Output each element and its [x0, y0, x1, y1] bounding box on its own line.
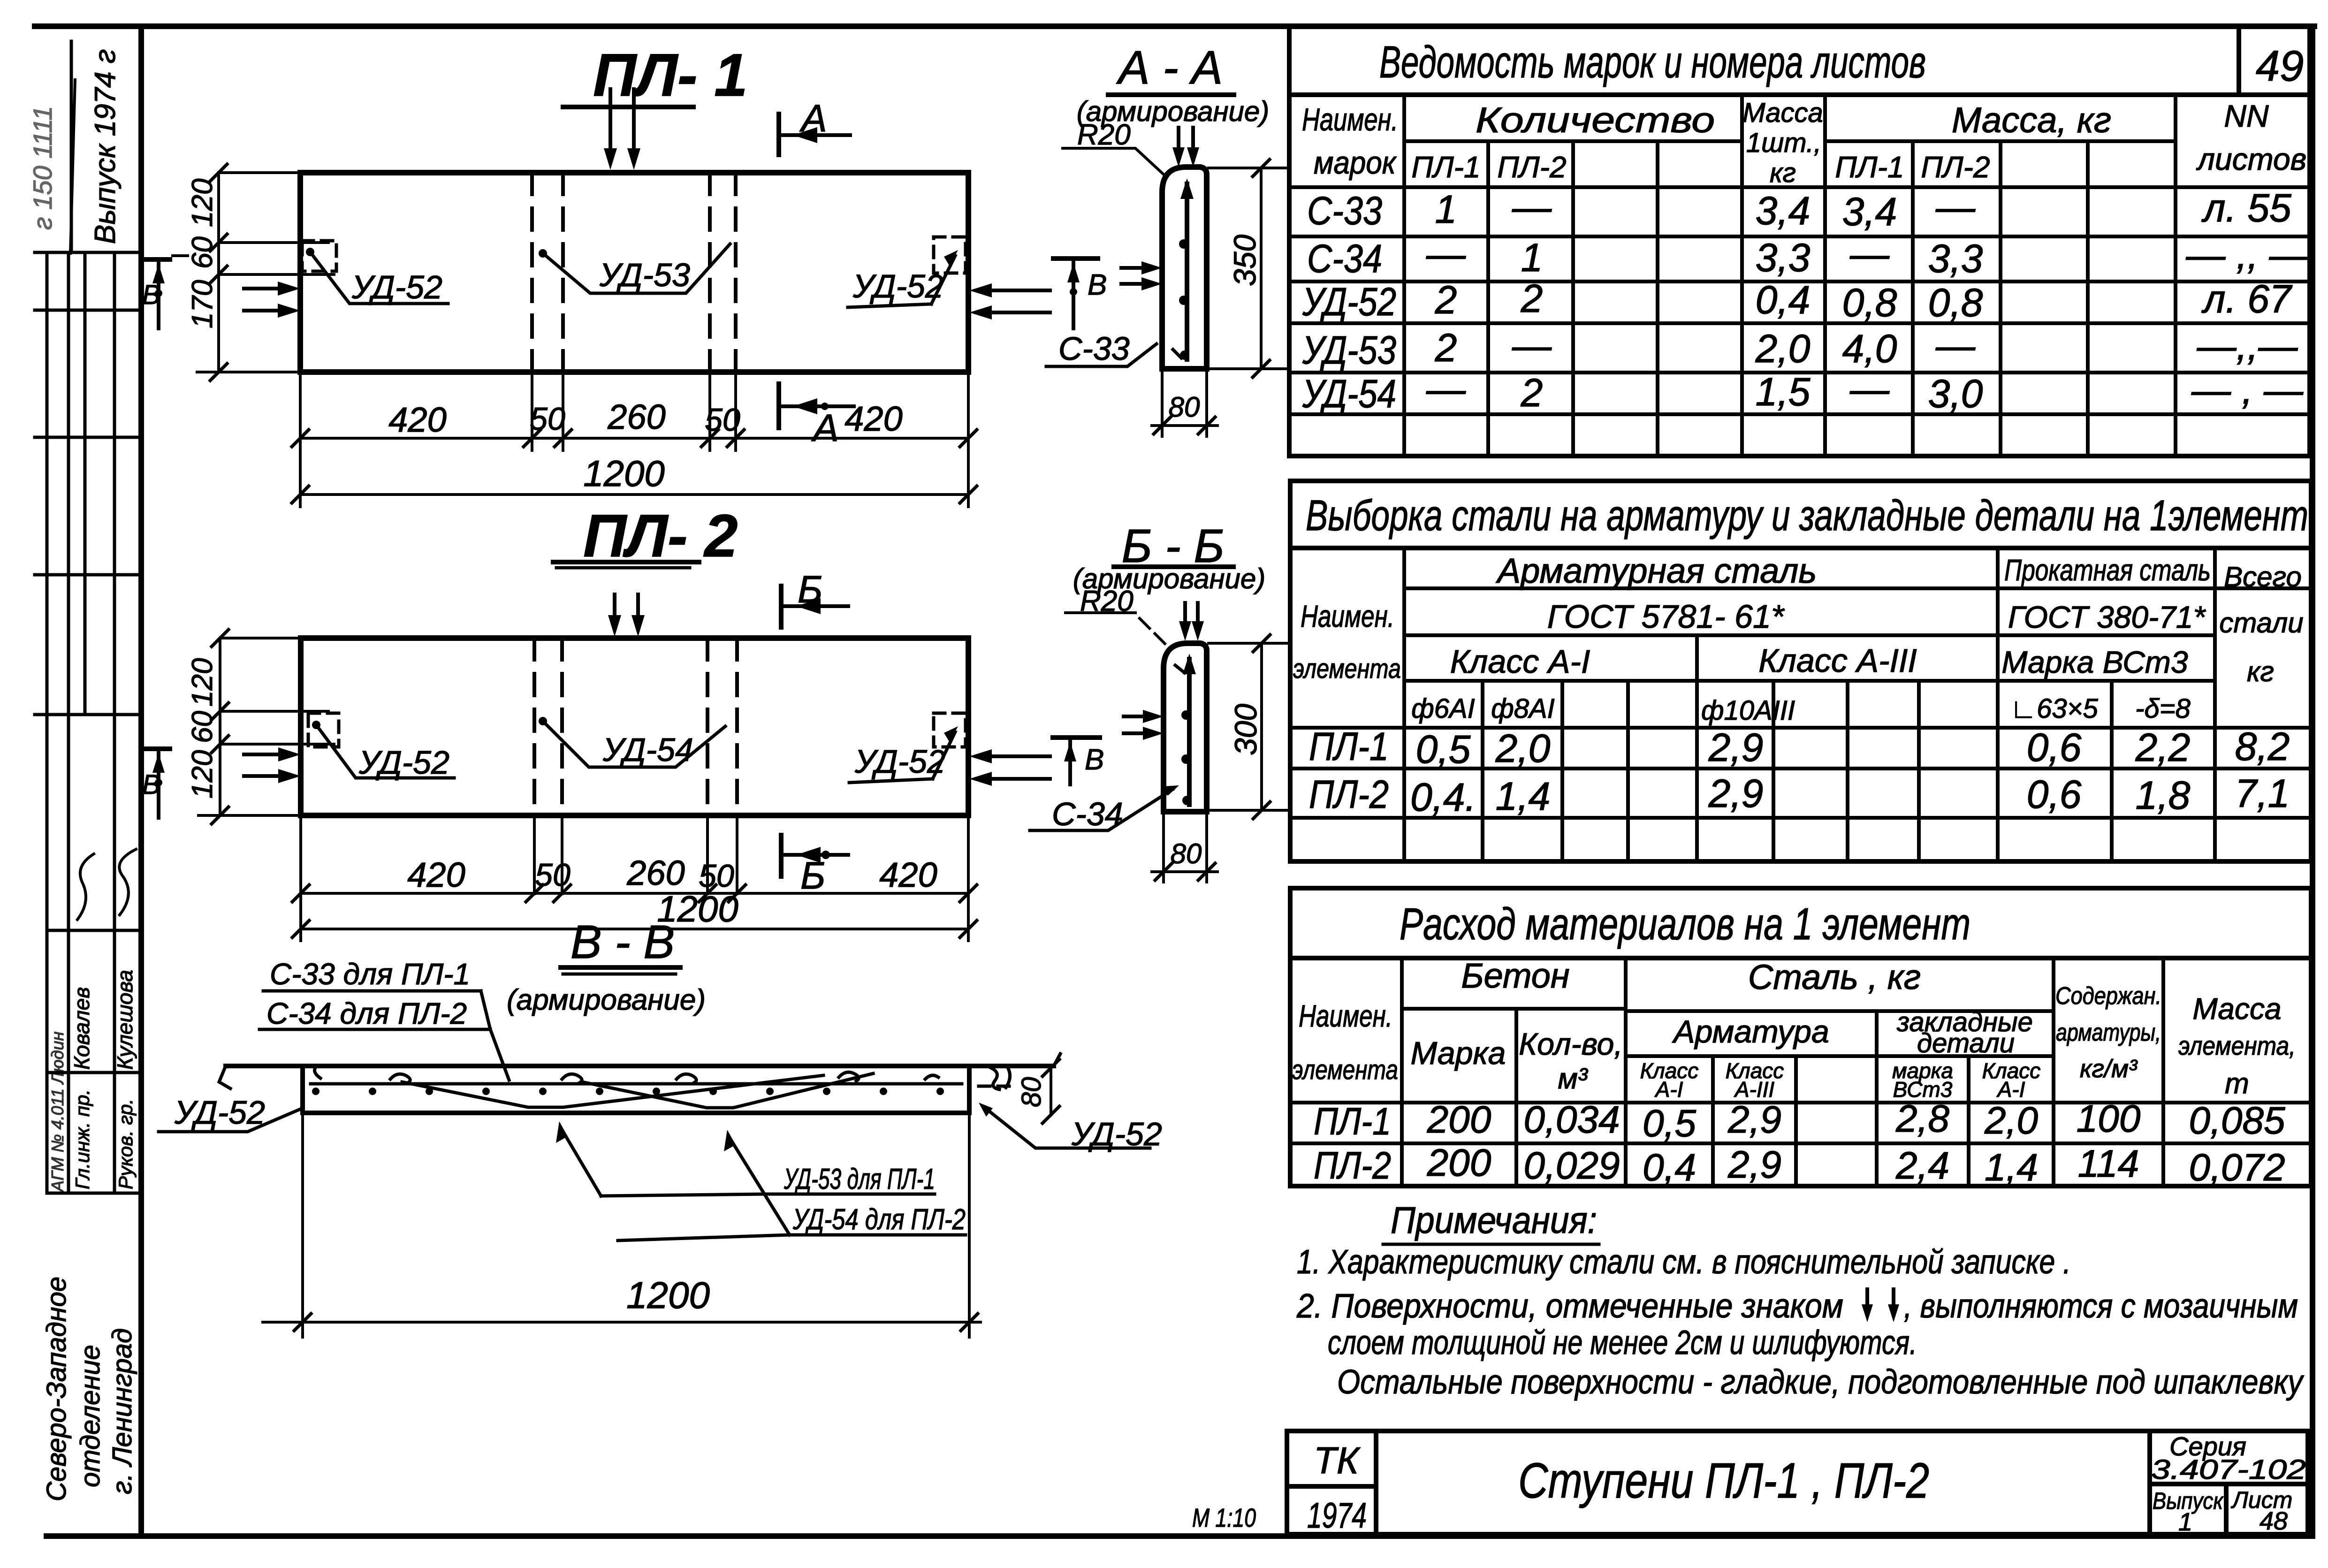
sidebar stamp grid — [35, 41, 141, 1193]
V-V mosaic mark right — [991, 1066, 1010, 1089]
svg-text:кг: кг — [2247, 656, 2274, 687]
svg-text:200: 200 — [1427, 1142, 1491, 1184]
section mark B(Б) top — [781, 568, 848, 627]
svg-text:1200: 1200 — [583, 453, 665, 494]
svg-text:марок: марок — [1314, 145, 1397, 181]
svg-text:1. Характеристику стали см.: 1. Характеристику стали см. в пояснитель… — [1297, 1243, 2071, 1281]
svg-text:ГОСТ 5781- 61*: ГОСТ 5781- 61* — [1547, 598, 1785, 635]
svg-text:Остальные поверхности - глад: Остальные поверхности - гладкие, подгото… — [1337, 1363, 2305, 1401]
svg-text:Б: Б — [800, 854, 825, 897]
svg-text:80: 80 — [1016, 1077, 1047, 1107]
svg-text:А-I: А-I — [1654, 1077, 1683, 1102]
PL-1 side arrows right — [969, 283, 1050, 320]
svg-text:УД-53: УД-53 — [599, 257, 690, 293]
svg-text:80: 80 — [1171, 838, 1202, 869]
svg-text:С-33: С-33 — [1058, 330, 1130, 367]
svg-text:3.407-102: 3.407-102 — [2151, 1454, 2306, 1485]
svg-text:200: 200 — [1427, 1098, 1491, 1141]
svg-text:УД-53 для ПЛ-1: УД-53 для ПЛ-1 — [784, 1163, 935, 1195]
svg-text:арматуры,: арматуры, — [2056, 1019, 2161, 1046]
svg-text:ПЛ-2: ПЛ-2 — [1314, 1144, 1391, 1187]
svg-text:кг/м³: кг/м³ — [2080, 1055, 2138, 1083]
svg-text:А: А — [811, 407, 839, 449]
svg-text:0,072: 0,072 — [2189, 1146, 2285, 1189]
B-B rebar C-34 — [1175, 654, 1196, 805]
svg-text:2,0: 2,0 — [1984, 1099, 2038, 1142]
svg-text:ПЛ-1: ПЛ-1 — [1309, 724, 1389, 769]
svg-text:1,4: 1,4 — [1985, 1146, 2038, 1189]
svg-text:л. 67: л. 67 — [2201, 277, 2293, 321]
table 1 headers — [1302, 98, 2306, 188]
svg-text:УД-52: УД-52 — [852, 268, 943, 304]
svg-text:В: В — [142, 769, 160, 800]
svg-text:60: 60 — [186, 711, 219, 743]
sidebar org name rotated — [41, 1277, 137, 1501]
svg-text:УД-52: УД-52 — [351, 269, 442, 305]
svg-text:ПЛ-1: ПЛ-1 — [1411, 150, 1480, 184]
svg-text:М 1:10: М 1:10 — [1192, 1503, 1256, 1532]
A-A label C-33 — [1046, 330, 1156, 367]
PL-1 overall dimension 1200 — [292, 453, 977, 507]
svg-text:2,8: 2,8 — [1895, 1097, 1949, 1140]
svg-text:1,5: 1,5 — [1756, 370, 1811, 414]
svg-text:В - В: В - В — [571, 916, 675, 968]
svg-text:-δ=8: -δ=8 — [2135, 693, 2191, 724]
svg-text:ПЛ-2: ПЛ-2 — [1309, 772, 1389, 816]
svg-text:УД-52: УД-52 — [358, 744, 449, 781]
embedded part UD-52 left (PL-2) — [308, 713, 454, 781]
svg-text:R20: R20 — [1077, 119, 1131, 151]
svg-text:1,4: 1,4 — [1496, 774, 1551, 818]
svg-text:УД-54: УД-54 — [1302, 372, 1396, 416]
PL-1 title — [563, 42, 747, 109]
svg-text:0,6: 0,6 — [2027, 725, 2082, 769]
svg-text:ф6АI: ф6АI — [1411, 693, 1475, 724]
embedded part UD-52 left (PL-1) — [302, 241, 448, 305]
PL-2 title — [553, 502, 738, 570]
svg-text:УД-54: УД-54 — [602, 731, 693, 768]
svg-text:ГОСТ 380-71*: ГОСТ 380-71* — [2008, 600, 2206, 634]
svg-text:2,4: 2,4 — [1895, 1144, 1949, 1187]
svg-text:2,9: 2,9 — [1708, 771, 1764, 815]
svg-text:—: — — [1426, 367, 1466, 411]
PL-2 side arrows left — [244, 747, 301, 783]
svg-text:ф8АI: ф8АI — [1491, 693, 1555, 724]
svg-text:420: 420 — [879, 855, 937, 894]
svg-text:Северо-Западное: Северо-Западное — [41, 1277, 72, 1501]
V-V mesh C-33/34 top chord — [311, 1084, 962, 1095]
label C-33 for PL-1 — [263, 957, 481, 991]
embedded part UD-54 middle (PL-2) — [539, 717, 725, 768]
svg-text:— ,, —: — ,, — — [2185, 233, 2309, 277]
svg-text:2: 2 — [1435, 326, 1457, 370]
svg-text:г. Ленинград: г. Ленинград — [107, 1328, 137, 1494]
svg-text:49: 49 — [2256, 42, 2304, 90]
svg-text:3,0: 3,0 — [1928, 372, 1983, 416]
A-A rebar C-33 — [1173, 178, 1194, 360]
PL-2 left dimension chain 120/60/120 — [186, 630, 334, 824]
svg-text:, выполняются с мозаичным: , выполняются с мозаичным — [1904, 1287, 2298, 1325]
table 2 title — [1306, 492, 2308, 540]
svg-text:Бетон: Бетон — [1461, 956, 1569, 995]
svg-text:Выпуск 1974 г: Выпуск 1974 г — [89, 49, 122, 244]
V-V bar top surface line — [219, 1054, 1060, 1088]
svg-text:ПЛ- 2: ПЛ- 2 — [583, 502, 738, 570]
svg-text:2,9: 2,9 — [1708, 725, 1764, 769]
svg-text:Гл.инж. пр.: Гл.инж. пр. — [71, 1089, 93, 1189]
svg-text:Масса, кг: Масса, кг — [1952, 100, 2111, 140]
svg-text:Масса: Масса — [1742, 98, 1823, 128]
section mark A bottom — [779, 384, 854, 449]
V-V bent bar 1 (UD-53/54) — [402, 1075, 823, 1107]
A-A radius label R20 — [1063, 119, 1167, 177]
svg-text:УД-52: УД-52 — [1302, 280, 1396, 324]
svg-text:Ведомость марок и номера л: Ведомость марок и номера листов — [1379, 37, 1926, 87]
svg-text:0,029: 0,029 — [1523, 1144, 1620, 1187]
A-A load arrows — [1172, 128, 1199, 167]
svg-text:Расход материалов на 1 эле: Расход материалов на 1 элемент — [1400, 899, 1970, 949]
svg-text:А: А — [799, 97, 827, 140]
svg-text:1974: 1974 — [1307, 1496, 1367, 1536]
svg-text:л. 55: л. 55 — [2201, 186, 2291, 230]
B-B dimension 80 — [1152, 815, 1217, 882]
svg-text:0,6: 0,6 — [2027, 772, 2082, 816]
svg-text:Наимен.: Наимен. — [1299, 998, 1392, 1033]
section mark A top — [779, 97, 850, 155]
svg-text:120: 120 — [186, 750, 219, 799]
svg-text:элемента,: элемента, — [2178, 1031, 2296, 1060]
svg-text:В: В — [1085, 744, 1104, 776]
svg-text:А - А: А - А — [1116, 41, 1223, 94]
svg-text:детали: детали — [1917, 1028, 2015, 1058]
A-A dimension 80 — [1152, 372, 1217, 436]
PL-2 plate outline — [301, 638, 968, 815]
svg-text:1: 1 — [2178, 1508, 2192, 1536]
svg-text:170: 170 — [186, 280, 219, 328]
V-V labels UD-53/UD-54 — [556, 1121, 935, 1196]
table 1 data rows — [1302, 185, 2309, 416]
svg-text:260: 260 — [607, 397, 665, 436]
mark V (B) far left for PL-2 — [142, 749, 170, 818]
PL-1 dimension row 420/50/260/50/420 — [292, 375, 977, 450]
B-B title — [1073, 520, 1265, 594]
PL-1 plate outline — [300, 173, 968, 372]
svg-text:—: — — [1426, 232, 1466, 276]
V-V label UD-52 left — [159, 1094, 300, 1132]
svg-text:7,1: 7,1 — [2235, 771, 2290, 815]
V-V mesh hooks — [315, 1066, 939, 1083]
svg-text:0,8: 0,8 — [1928, 281, 1983, 325]
svg-text:Масса: Масса — [2192, 992, 2281, 1026]
A-A title — [1077, 41, 1269, 127]
svg-text:2,0: 2,0 — [1755, 327, 1811, 371]
svg-text:АГМ № 4.011 Людин: АГМ № 4.011 Людин — [48, 1031, 67, 1193]
svg-text:—: — — [1512, 323, 1552, 367]
svg-text:120: 120 — [186, 658, 219, 707]
mark V (B) far left for PL-1 — [142, 256, 188, 328]
PL-1 dashed joint lines — [532, 173, 736, 372]
svg-text:элемента: элемента — [1292, 1055, 1398, 1085]
svg-text:1,8: 1,8 — [2136, 773, 2191, 817]
svg-text:350: 350 — [1227, 235, 1262, 286]
svg-text:ТК: ТК — [1314, 1439, 1361, 1481]
svg-text:0,5: 0,5 — [1643, 1102, 1696, 1145]
svg-text:2. Поверхности, отмеченные: 2. Поверхности, отмеченные знаком — [1296, 1287, 1843, 1325]
V-V label UD-52 right — [979, 1103, 1162, 1152]
svg-text:Выборка стали на арматуру: Выборка стали на арматуру и закладные де… — [1306, 492, 2308, 540]
table 2 headers — [1293, 551, 2304, 726]
svg-text:2: 2 — [1435, 278, 1457, 322]
svg-text:2: 2 — [1521, 276, 1543, 320]
V-V title — [507, 916, 706, 1016]
embedded part UD-53 middle (PL-1) — [539, 244, 730, 293]
svg-text:80: 80 — [1169, 391, 1200, 423]
embedded part UD-52 right (PL-1) — [848, 237, 966, 307]
PL-1 side arrows left — [244, 282, 300, 318]
svg-text:листов: листов — [2196, 142, 2306, 176]
svg-text:м³: м³ — [1558, 1063, 1589, 1095]
svg-text:0,4: 0,4 — [1643, 1146, 1696, 1189]
B-B mark V (B) left — [1053, 738, 1104, 784]
svg-text:—,,—: —,,— — [2197, 324, 2298, 368]
svg-text:Кулешова: Кулешова — [113, 970, 137, 1070]
svg-text:2,9: 2,9 — [1727, 1098, 1781, 1141]
svg-text:С-34: С-34 — [1307, 236, 1382, 281]
svg-text:48: 48 — [2260, 1507, 2288, 1535]
svg-text:— , —: — , — — [2191, 368, 2304, 412]
svg-text:С-33: С-33 — [1307, 189, 1382, 233]
svg-text:отделение: отделение — [75, 1345, 106, 1487]
svg-text:0,5: 0,5 — [1416, 727, 1471, 771]
svg-text:60: 60 — [186, 236, 219, 269]
svg-text:2: 2 — [1521, 371, 1543, 415]
svg-text:кг: кг — [1770, 158, 1796, 188]
svg-text:Сталь , кг: Сталь , кг — [1748, 958, 1921, 997]
svg-text:Ступени ПЛ-1 , ПЛ-2: Ступени ПЛ-1 , ПЛ-2 — [1518, 1453, 1929, 1508]
PL-1 left dimension chain 120/60/170 — [186, 164, 334, 381]
scale note М 1:10 — [1192, 1503, 1256, 1532]
B-B side arrows — [1124, 710, 1164, 740]
svg-text:Марка: Марка — [1411, 1035, 1506, 1071]
svg-text:1: 1 — [1435, 187, 1457, 231]
PL-2 dimension row 420/50/260/50/420 — [292, 819, 977, 902]
svg-text:0,034: 0,034 — [1523, 1098, 1620, 1141]
svg-text:50: 50 — [530, 401, 565, 437]
sidebar signatures block rotated — [48, 849, 137, 1193]
svg-text:Прокатная сталь: Прокатная сталь — [2004, 553, 2211, 587]
svg-text:2,0: 2,0 — [1495, 726, 1551, 770]
V-V bar outline — [303, 1066, 969, 1113]
svg-text:элемента: элемента — [1293, 654, 1401, 684]
svg-text:УД-54 для ПЛ-2: УД-54 для ПЛ-2 — [792, 1203, 966, 1236]
svg-text:С-34 для ПЛ-2: С-34 для ПЛ-2 — [266, 997, 467, 1030]
svg-text:—: — — [1849, 367, 1890, 411]
svg-text:(армирование): (армирование) — [507, 984, 706, 1016]
svg-text:ПЛ-1: ПЛ-1 — [1835, 150, 1904, 184]
svg-text:NN: NN — [2224, 99, 2269, 133]
svg-text:∟63×5: ∟63×5 — [2010, 693, 2098, 724]
svg-text:УД-53: УД-53 — [1302, 328, 1396, 372]
svg-text:Класс А-I: Класс А-I — [1450, 643, 1590, 680]
label C-34 for PL-2 — [259, 991, 509, 1080]
svg-text:0,8: 0,8 — [1842, 281, 1897, 325]
table 3 headers — [1292, 956, 2296, 1102]
svg-text:Наимен.: Наимен. — [1301, 599, 1394, 633]
svg-text:Кол-во,: Кол-во, — [1519, 1027, 1622, 1061]
svg-text:В: В — [1088, 269, 1107, 301]
V-V dimension 1200 — [263, 1117, 981, 1337]
svg-text:Примечания:: Примечания: — [1391, 1199, 1597, 1241]
svg-text:Руков. гр.: Руков. гр. — [114, 1099, 137, 1189]
B-B dimension 300 — [1209, 635, 1288, 819]
svg-text:0,4: 0,4 — [1756, 278, 1811, 322]
svg-text:—: — — [1935, 323, 1976, 367]
A-A side arrows — [1121, 261, 1162, 290]
PL-1 load arrows — [604, 89, 640, 170]
svg-text:0,085: 0,085 — [2189, 1099, 2285, 1142]
svg-text:ПЛ-2: ПЛ-2 — [1921, 150, 1990, 184]
section mark B(Б) bottom — [781, 835, 848, 897]
svg-text:Марка ВСт3: Марка ВСт3 — [2001, 645, 2188, 679]
svg-text:А-I: А-I — [1996, 1077, 2025, 1102]
B-B section outline — [1164, 643, 1207, 812]
mosaic mark arrows in note 2 — [1865, 1289, 1869, 1314]
svg-text:УД-52: УД-52 — [854, 743, 945, 780]
table 3 data rows — [1314, 1097, 2285, 1189]
svg-text:Арматурная сталь: Арматурная сталь — [1496, 551, 1817, 590]
svg-text:4,0: 4,0 — [1842, 327, 1897, 371]
A-A mark V (B) left — [1053, 259, 1107, 328]
svg-text:100: 100 — [2077, 1097, 2141, 1140]
table 2 data rows — [1309, 724, 2290, 819]
table 3 title — [1400, 899, 1970, 949]
svg-text:2,9: 2,9 — [1727, 1143, 1781, 1186]
svg-text:2,2: 2,2 — [2135, 725, 2191, 769]
svg-text:Количество: Количество — [1476, 100, 1715, 140]
svg-text:УД-52: УД-52 — [174, 1094, 265, 1131]
svg-text:Класс А-III: Класс А-III — [1758, 642, 1917, 679]
svg-text:420: 420 — [388, 400, 446, 439]
svg-text:Ковалев: Ковалев — [69, 987, 94, 1070]
svg-text:—: — — [1935, 185, 1976, 229]
sidebar rotated text: Выпуск 1974 г — [70, 49, 122, 253]
svg-text:Наимен.: Наимен. — [1302, 102, 1398, 137]
PL-2 dashed joint lines — [534, 638, 737, 815]
svg-text:т: т — [2225, 1067, 2249, 1100]
svg-text:1200: 1200 — [626, 1274, 710, 1316]
svg-text:3,4: 3,4 — [1842, 190, 1897, 234]
svg-text:ПЛ- 1: ПЛ- 1 — [593, 42, 747, 109]
svg-text:С-33 для ПЛ-1: С-33 для ПЛ-1 — [270, 957, 470, 991]
svg-text:ф10АIII: ф10АIII — [1701, 695, 1795, 726]
svg-text:ПЛ-2: ПЛ-2 — [1497, 150, 1566, 184]
B-B radius label R20 — [1065, 585, 1166, 645]
PL-2 overall dimension 1200 — [292, 888, 977, 941]
svg-text:120: 120 — [186, 179, 219, 227]
embedded part UD-52 right (PL-2) — [849, 713, 966, 783]
svg-text:50: 50 — [535, 857, 571, 893]
A-A section outline — [1162, 167, 1207, 369]
svg-text:0,4.: 0,4. — [1410, 775, 1476, 819]
svg-text:8,2: 8,2 — [2235, 724, 2290, 769]
svg-text:Всего: Всего — [2224, 561, 2302, 593]
svg-text:1: 1 — [1521, 236, 1543, 280]
svg-text:слоем толщиной не менее 2см: слоем толщиной не менее 2см и шлифуются. — [1328, 1324, 1917, 1362]
svg-text:1шт.,: 1шт., — [1746, 128, 1821, 158]
PL-2 load arrows — [608, 594, 645, 637]
svg-text:стали: стали — [2219, 607, 2303, 639]
svg-text:—: — — [1849, 232, 1890, 276]
sidebar rotated faint doc number — [28, 106, 57, 230]
table 1 title — [1379, 37, 2304, 90]
A-A dimension 350 — [1209, 160, 1288, 377]
svg-text:В: В — [142, 280, 160, 310]
svg-text:3,4: 3,4 — [1756, 189, 1811, 233]
svg-text:50: 50 — [705, 402, 740, 438]
svg-text:г 150 1111: г 150 1111 — [28, 106, 57, 230]
svg-text:114: 114 — [2078, 1142, 2139, 1185]
svg-text:ПЛ-1: ПЛ-1 — [1314, 1100, 1391, 1143]
B-B load arrows — [1179, 603, 1204, 641]
svg-text:300: 300 — [1228, 704, 1263, 755]
svg-text:3,3: 3,3 — [1756, 236, 1811, 280]
svg-text:Б: Б — [798, 568, 822, 611]
svg-text:420: 420 — [407, 855, 465, 894]
B-B label C-34 — [1030, 785, 1179, 832]
svg-text:—: — — [1512, 185, 1552, 229]
svg-text:260: 260 — [626, 853, 685, 892]
PL-2 side arrows right — [969, 749, 1050, 786]
V-V bent bar 2 — [582, 1073, 873, 1108]
svg-text:3,3: 3,3 — [1928, 236, 1983, 281]
svg-text:Содержан.: Содержан. — [2055, 982, 2161, 1010]
svg-text:Арматура: Арматура — [1672, 1014, 1829, 1050]
V-V dimension 80 right — [979, 1059, 1059, 1123]
